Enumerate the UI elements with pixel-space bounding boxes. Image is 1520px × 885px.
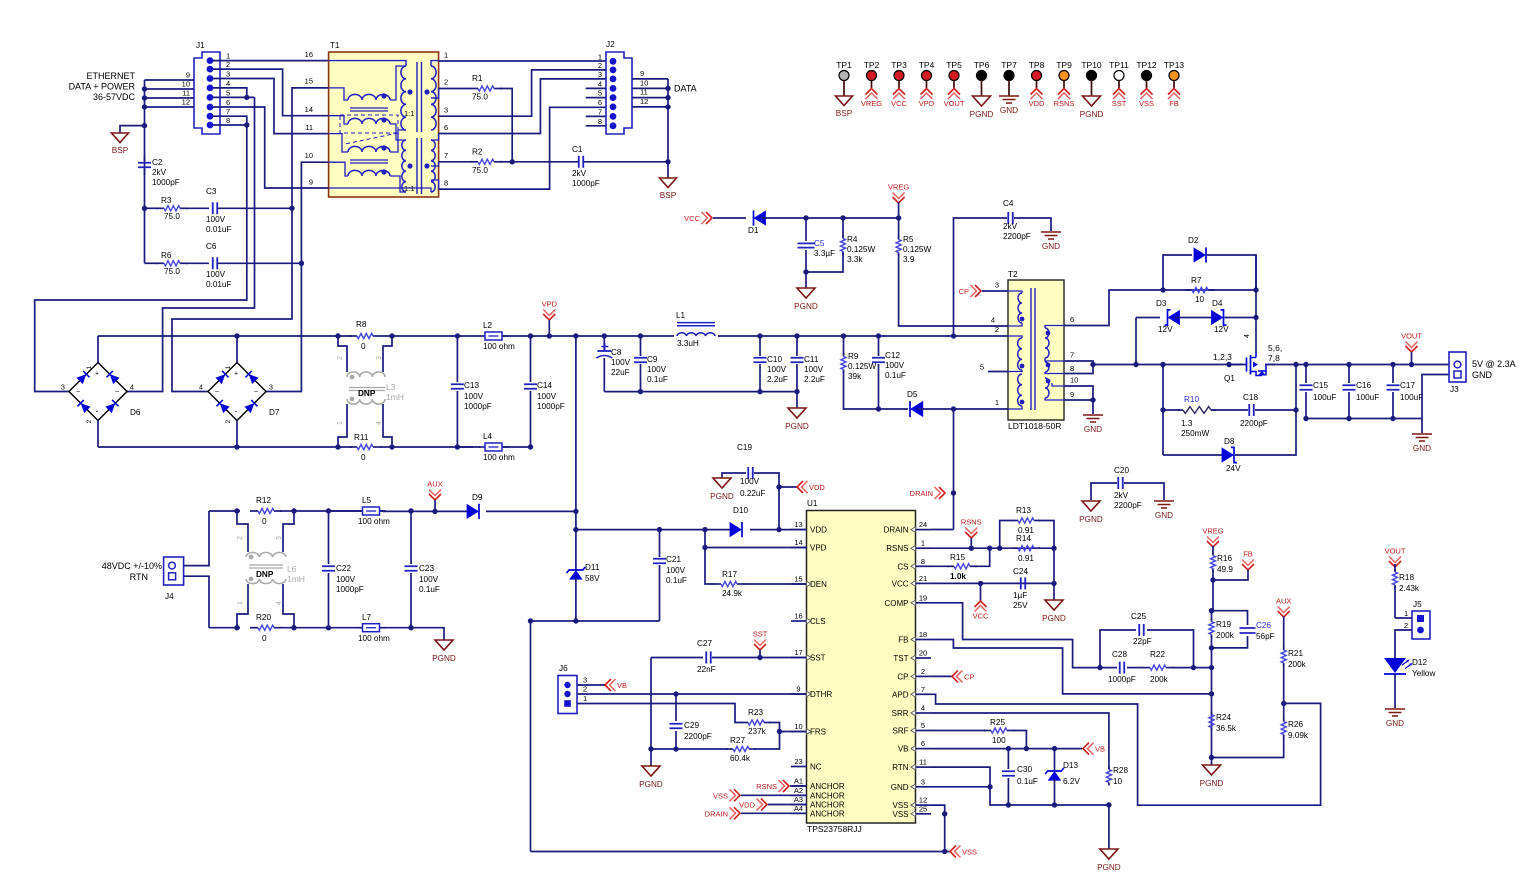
svg-text:+: + <box>234 371 238 378</box>
svg-text:VCC: VCC <box>973 612 989 621</box>
capacitor C27 SST <box>651 657 703 659</box>
svg-text:R24: R24 <box>1216 713 1231 722</box>
wire J2 right rows 9-12 <box>632 78 668 80</box>
ground GND under LED <box>1385 709 1405 716</box>
U1 pin 13 VDD <box>791 529 807 531</box>
svg-text:12V: 12V <box>1158 325 1173 334</box>
svg-text:0.1uF: 0.1uF <box>885 371 906 380</box>
svg-text:5: 5 <box>921 721 925 730</box>
capacitor C8 polarized <box>603 336 605 351</box>
svg-text:CP: CP <box>897 672 908 681</box>
svg-text:14: 14 <box>305 105 313 114</box>
svg-text:PGND: PGND <box>432 654 456 663</box>
svg-text:DRAIN: DRAIN <box>884 526 909 535</box>
resistor R18 <box>1394 564 1396 571</box>
T1 upper choke windings <box>348 94 390 100</box>
svg-text:D9: D9 <box>472 493 483 502</box>
svg-text:4: 4 <box>376 421 383 425</box>
wire R1 to J2 pin2 <box>500 89 512 117</box>
wire C8-C9 ground rail <box>604 391 797 393</box>
svg-text:25V: 25V <box>1013 601 1028 610</box>
svg-text:FB: FB <box>1169 99 1179 108</box>
wire J1 pins4-5 descent to bridge D6 <box>127 97 255 391</box>
svg-text:RTN: RTN <box>130 572 148 582</box>
wire RSNS row <box>931 547 1054 549</box>
svg-text:100V: 100V <box>336 575 356 584</box>
svg-text:C14: C14 <box>537 381 552 390</box>
wire J1 pin1 to T1 pin16 <box>213 60 329 62</box>
capacitor C24 <box>1021 577 1026 589</box>
svg-text:R14: R14 <box>1016 534 1031 543</box>
wire J1 pin7/pin8 junction <box>213 116 247 125</box>
wire VPD branch <box>704 530 706 548</box>
U1 pin 18 FB <box>916 639 932 641</box>
svg-text:3: 3 <box>269 385 273 392</box>
svg-text:TP1: TP1 <box>836 60 852 70</box>
svg-text:RSNS: RSNS <box>756 782 777 791</box>
port VB flag <box>1083 743 1089 755</box>
svg-text:22nF: 22nF <box>697 665 716 674</box>
svg-text:100: 100 <box>992 736 1006 745</box>
svg-text:36.5k: 36.5k <box>1216 724 1237 733</box>
resistor R24 <box>1211 712 1213 715</box>
wire T2 pins10-9 to GND <box>1064 386 1093 400</box>
wire FRS row <box>777 729 782 734</box>
U1 pin 14 VPD <box>791 547 807 549</box>
ferrite bead L5 <box>329 510 358 512</box>
ground PGND under R24 <box>1211 758 1213 766</box>
zener D3 <box>1136 317 1160 319</box>
svg-text:VOUT: VOUT <box>944 99 965 108</box>
svg-text:BSP: BSP <box>112 146 129 155</box>
svg-text:C4: C4 <box>1003 199 1014 208</box>
ground PGND under C11 <box>794 389 799 394</box>
capacitor C4 <box>954 218 1008 336</box>
svg-text:TP9: TP9 <box>1056 60 1072 70</box>
svg-text:15: 15 <box>794 575 802 584</box>
resistor R9 <box>843 336 845 355</box>
flag VOUT <box>1406 346 1418 352</box>
svg-text:7: 7 <box>921 685 925 694</box>
wire L3 jogs top <box>338 336 347 372</box>
svg-text:2.2uF: 2.2uF <box>804 375 825 384</box>
svg-text:RSNS: RSNS <box>1054 99 1075 108</box>
svg-text:TP13: TP13 <box>1164 60 1185 70</box>
svg-text:16: 16 <box>794 612 802 621</box>
svg-text:RSNS: RSNS <box>886 544 908 553</box>
svg-text:0.1uF: 0.1uF <box>1017 777 1038 786</box>
wire J3 pin2 to ground <box>1422 375 1449 434</box>
svg-text:22uF: 22uF <box>611 368 630 377</box>
svg-text:C20: C20 <box>1114 466 1129 475</box>
wire snubber right column to Q1 drain <box>1255 255 1257 352</box>
svg-text:1000pF: 1000pF <box>152 178 180 187</box>
flag VREG <box>893 197 905 203</box>
svg-text:9: 9 <box>1070 390 1074 399</box>
resistor R13 <box>1000 521 1013 549</box>
svg-text:8: 8 <box>1070 364 1074 373</box>
svg-text:1: 1 <box>86 366 93 370</box>
ground PGND under C24 <box>1045 600 1063 610</box>
wire J1 pin2 to T1 pin14 <box>213 69 329 116</box>
svg-text:2kV: 2kV <box>1003 222 1018 231</box>
svg-text:R19: R19 <box>1216 620 1231 629</box>
svg-text:1,2,3: 1,2,3 <box>1213 352 1232 362</box>
svg-text:6: 6 <box>598 98 602 107</box>
wire AUX input row <box>209 510 240 512</box>
svg-text:5,6,: 5,6, <box>1268 343 1282 353</box>
resistor R10 <box>1162 365 1164 411</box>
connector J6 <box>558 676 577 714</box>
svg-text:TP4: TP4 <box>919 60 935 70</box>
svg-text:11: 11 <box>305 123 313 132</box>
U1 pin 2 CP <box>916 675 932 677</box>
flag RSNS <box>965 532 977 538</box>
port VDD flag <box>776 484 781 489</box>
svg-text:D2: D2 <box>1188 236 1199 245</box>
svg-text:L7: L7 <box>362 613 372 622</box>
svg-text:0.1uF: 0.1uF <box>666 576 687 585</box>
resistor R1 <box>470 88 478 90</box>
U1 pin 20 TST <box>916 657 932 659</box>
svg-text:10: 10 <box>1070 376 1078 385</box>
svg-text:R22: R22 <box>1150 650 1165 659</box>
svg-text:9: 9 <box>186 71 190 80</box>
ground BSP top-left <box>112 133 129 143</box>
svg-text:R20: R20 <box>256 613 271 622</box>
wire VCC row <box>931 582 1054 584</box>
capacitor C30 <box>1007 749 1009 769</box>
svg-text:C22: C22 <box>336 564 351 573</box>
svg-text:4: 4 <box>598 79 602 88</box>
wire T1 pin10 net to bridge D7 <box>266 263 301 391</box>
svg-text:VSS: VSS <box>1139 99 1154 108</box>
svg-text:D8: D8 <box>1224 437 1235 446</box>
wire L3 jogs bottom <box>338 404 347 447</box>
svg-text:7: 7 <box>444 151 448 160</box>
svg-text:11: 11 <box>640 88 648 97</box>
svg-text:~: ~ <box>115 389 119 396</box>
wire R13 column to PGND <box>1053 548 1055 600</box>
resistor R12 <box>250 510 258 512</box>
wire R16 to R19 node <box>1212 580 1214 611</box>
svg-text:NC: NC <box>810 763 822 772</box>
capacitor C5 <box>805 218 807 241</box>
svg-text:100V: 100V <box>611 358 631 367</box>
wire C27 left to R27 row <box>650 658 652 750</box>
svg-text:-: - <box>96 407 99 416</box>
wire J2 unconnected stubs 4,5,7,8 <box>586 87 606 89</box>
wire T1 pin7 row with R2 <box>439 161 471 163</box>
svg-text:10: 10 <box>794 722 802 731</box>
svg-text:R1: R1 <box>472 74 483 83</box>
flag AUX right <box>1278 611 1290 617</box>
svg-text:A3: A3 <box>794 795 803 804</box>
svg-text:J6: J6 <box>559 664 568 673</box>
svg-text:0: 0 <box>262 517 267 526</box>
capacitor C1 <box>512 161 578 163</box>
svg-text:1: 1 <box>225 366 232 370</box>
svg-text:L5: L5 <box>362 496 372 505</box>
diode D10 <box>730 522 742 537</box>
wire T1 pin15 net to bridge D7 <box>172 208 292 391</box>
svg-text:R21: R21 <box>1288 649 1303 658</box>
svg-text:~: ~ <box>254 389 258 396</box>
svg-text:J1: J1 <box>196 41 205 50</box>
svg-text:100V: 100V <box>767 365 787 374</box>
svg-text:4: 4 <box>199 385 203 392</box>
svg-text:100V: 100V <box>740 477 760 486</box>
wire T1 pin10 descent <box>301 162 328 263</box>
U1 pin 21 VCC <box>916 582 932 584</box>
svg-text:C8: C8 <box>611 348 622 357</box>
wire J1 pin4/pin5 junction <box>213 88 247 98</box>
capacitor C9 <box>640 336 642 356</box>
svg-text:75.0: 75.0 <box>164 212 180 221</box>
svg-text:CP: CP <box>964 672 974 681</box>
svg-text:C10: C10 <box>767 355 782 364</box>
U1 pin 3 GND <box>916 786 932 788</box>
resistor R14 <box>1012 547 1018 549</box>
svg-text:9: 9 <box>309 178 313 187</box>
T1 lower choke windings <box>348 146 390 152</box>
svg-text:T1: T1 <box>330 41 340 50</box>
svg-text:100uF: 100uF <box>1400 393 1423 402</box>
inductor L3 DNP <box>347 372 385 377</box>
svg-text:FB: FB <box>898 636 908 645</box>
svg-text:SST: SST <box>810 654 826 663</box>
svg-text:5: 5 <box>598 89 602 98</box>
svg-text:R7: R7 <box>1191 276 1202 285</box>
svg-text:TP6: TP6 <box>974 60 990 70</box>
svg-text:R11: R11 <box>354 433 369 442</box>
svg-text:8: 8 <box>598 117 602 126</box>
svg-text:7: 7 <box>1070 351 1074 360</box>
flag VREG above R16 <box>1207 541 1219 547</box>
wire J1 pin3 to T1 pin11 <box>213 79 329 134</box>
svg-text:1000pF: 1000pF <box>464 402 492 411</box>
svg-text:15: 15 <box>305 77 313 86</box>
svg-text:R3: R3 <box>161 196 172 205</box>
svg-text:48VDC +/-10%: 48VDC +/-10% <box>102 561 162 571</box>
svg-text:VB: VB <box>1095 745 1105 754</box>
wire J1 pins7-8 descent to bridge D6 <box>35 125 247 392</box>
wire LED to GND <box>1394 674 1396 708</box>
wire R5 to T2 pin4 <box>899 254 1008 326</box>
U1 pin 23 NC <box>791 766 807 768</box>
svg-text:DATA + POWER: DATA + POWER <box>69 82 136 92</box>
svg-text:FB: FB <box>1243 550 1253 559</box>
svg-text:36-57VDC: 36-57VDC <box>93 92 136 102</box>
svg-text:R4: R4 <box>847 235 858 244</box>
wire CLS ground row to VSS bus <box>531 620 660 622</box>
svg-text:9: 9 <box>640 69 644 78</box>
wire output ground rail <box>1306 418 1422 420</box>
port CP input <box>975 285 981 297</box>
svg-text:R15: R15 <box>950 553 965 562</box>
capacitor C23 <box>408 508 413 513</box>
resistor R19 <box>1211 611 1213 620</box>
svg-text:2: 2 <box>995 325 999 334</box>
svg-text:VREG: VREG <box>861 99 882 108</box>
svg-text:4: 4 <box>1244 334 1251 338</box>
svg-text:A2: A2 <box>794 786 803 795</box>
svg-text:C2: C2 <box>152 158 163 167</box>
svg-text:1mH: 1mH <box>287 574 305 584</box>
wire J1 left rows 9-12 <box>145 79 195 81</box>
diode D9 AUX feed <box>383 510 468 512</box>
resistor R4 <box>842 218 844 237</box>
T2 primary windings <box>1008 291 1022 293</box>
capacitor C19 <box>722 473 746 478</box>
resistor R22 <box>1142 667 1150 669</box>
svg-text:U1: U1 <box>807 499 818 508</box>
svg-text:R16: R16 <box>1217 554 1232 563</box>
svg-text:VDD: VDD <box>1029 99 1045 108</box>
svg-text:8: 8 <box>444 179 448 188</box>
svg-text:19: 19 <box>919 593 927 602</box>
svg-text:D3: D3 <box>1156 299 1167 308</box>
ground GND under T2 pin9 <box>1083 415 1103 422</box>
wire FB node column <box>1211 648 1213 758</box>
svg-text:1000pF: 1000pF <box>537 402 565 411</box>
svg-text:C3: C3 <box>206 187 217 196</box>
resistor R17 DEN <box>705 548 714 585</box>
svg-text:D1: D1 <box>748 226 759 235</box>
wire VSS bottom rail <box>530 621 532 852</box>
svg-text:100uF: 100uF <box>1313 393 1336 402</box>
svg-text:C16: C16 <box>1356 381 1371 390</box>
svg-text:R25: R25 <box>990 718 1005 727</box>
svg-text:4: 4 <box>226 79 230 88</box>
wire Q1 source to output caps <box>1265 364 1452 366</box>
port VDD anchor <box>768 804 807 806</box>
ferrite bead L7 <box>329 627 358 629</box>
svg-text:R26: R26 <box>1288 720 1303 729</box>
svg-text:3: 3 <box>444 106 448 115</box>
svg-text:4: 4 <box>276 601 283 605</box>
svg-text:100V: 100V <box>206 270 226 279</box>
resistor R28 <box>1108 767 1110 770</box>
svg-text:BSP: BSP <box>836 109 853 118</box>
svg-text:3: 3 <box>583 676 587 685</box>
svg-text:0.1uF: 0.1uF <box>419 585 440 594</box>
svg-text:1µF: 1µF <box>1013 591 1027 600</box>
resistor R16 <box>1212 546 1214 554</box>
U1 pin 12 VSS <box>916 804 932 806</box>
svg-text:100V: 100V <box>464 392 484 401</box>
svg-text:VDD: VDD <box>810 526 827 535</box>
svg-text:DNP: DNP <box>256 570 274 579</box>
svg-text:3: 3 <box>276 536 283 540</box>
wire T1 pin8 to J2 pin6 <box>439 107 606 189</box>
U1 pin 24 DRAIN <box>916 529 932 531</box>
wire RTN to GND row <box>931 767 990 787</box>
svg-text:100V: 100V <box>537 392 557 401</box>
svg-text:6: 6 <box>1070 315 1074 324</box>
svg-text:3.9: 3.9 <box>903 255 915 264</box>
wire T1 pin1 to J2 pin1 <box>439 60 606 62</box>
svg-text:5V @ 2.3A: 5V @ 2.3A <box>1472 359 1516 369</box>
svg-text:24: 24 <box>919 520 927 529</box>
flag SST <box>754 644 766 650</box>
svg-text:60.4k: 60.4k <box>730 754 751 763</box>
svg-text:TPS23758RJJ: TPS23758RJJ <box>807 824 862 834</box>
svg-text:PGND: PGND <box>785 422 809 431</box>
connector J5 <box>1412 611 1430 639</box>
zener D4 <box>1175 317 1216 319</box>
ground GND output <box>1412 434 1432 441</box>
svg-text:237k: 237k <box>748 727 767 736</box>
U1 pin 19 COMP <box>916 602 932 604</box>
svg-text:6: 6 <box>444 123 448 132</box>
wire D6 pin1 riser <box>97 336 99 363</box>
svg-text:24V: 24V <box>1226 464 1241 473</box>
svg-text:RTN: RTN <box>892 763 909 772</box>
svg-text:L3: L3 <box>386 382 396 392</box>
capacitor C6 <box>213 257 218 269</box>
capacitor C21 <box>659 530 661 557</box>
svg-text:DATA: DATA <box>674 84 697 94</box>
svg-text:PGND: PGND <box>1080 110 1104 119</box>
svg-text:D6: D6 <box>130 408 141 417</box>
svg-text:2200pF: 2200pF <box>1003 232 1031 241</box>
ground BSP right <box>667 162 669 178</box>
svg-text:0: 0 <box>262 634 267 643</box>
svg-text:A1: A1 <box>794 777 803 786</box>
svg-text:C19: C19 <box>737 443 752 452</box>
wire L6 jogs bottom <box>237 584 248 628</box>
svg-text:22pF: 22pF <box>1133 637 1152 646</box>
svg-text:RSNS: RSNS <box>961 518 982 527</box>
svg-text:AUX: AUX <box>1276 597 1291 606</box>
svg-text:2: 2 <box>225 420 232 424</box>
svg-text:75.0: 75.0 <box>472 93 488 102</box>
capacitor C26 <box>1212 611 1248 625</box>
svg-text:R18: R18 <box>1399 573 1414 582</box>
svg-text:3: 3 <box>921 777 925 786</box>
svg-text:GND: GND <box>1413 444 1431 453</box>
svg-text:2kV: 2kV <box>1114 491 1129 500</box>
svg-text:4: 4 <box>130 385 134 392</box>
svg-text:100 ohm: 100 ohm <box>358 634 390 643</box>
resistor R11 <box>349 446 357 448</box>
svg-text:9: 9 <box>796 685 800 694</box>
svg-text:100V: 100V <box>419 575 439 584</box>
svg-text:PGND: PGND <box>970 110 994 119</box>
svg-text:D5: D5 <box>907 390 918 399</box>
diode D8 <box>1162 410 1164 455</box>
svg-text:D11: D11 <box>585 563 600 572</box>
svg-text:C5: C5 <box>814 239 825 248</box>
wire D3 branch to output row <box>1135 318 1137 365</box>
capacitor C29 <box>675 694 677 721</box>
resistor R20 <box>209 627 240 629</box>
svg-text:GND: GND <box>891 783 909 792</box>
svg-text:AUX: AUX <box>427 480 442 489</box>
svg-text:100V: 100V <box>885 361 905 370</box>
bridge rectifier D7 <box>208 363 266 421</box>
svg-text:L1: L1 <box>676 311 686 320</box>
wire R18 to J5 pin1 <box>1395 617 1412 619</box>
svg-text:20: 20 <box>919 649 927 658</box>
flag FB <box>1242 564 1254 570</box>
capacitor C3 <box>213 202 218 214</box>
ground PGND under C19 <box>713 478 731 488</box>
wire VSS pins to rail <box>931 805 945 851</box>
wire J4 pin1 to row <box>184 511 209 566</box>
svg-text:75.0: 75.0 <box>472 166 488 175</box>
